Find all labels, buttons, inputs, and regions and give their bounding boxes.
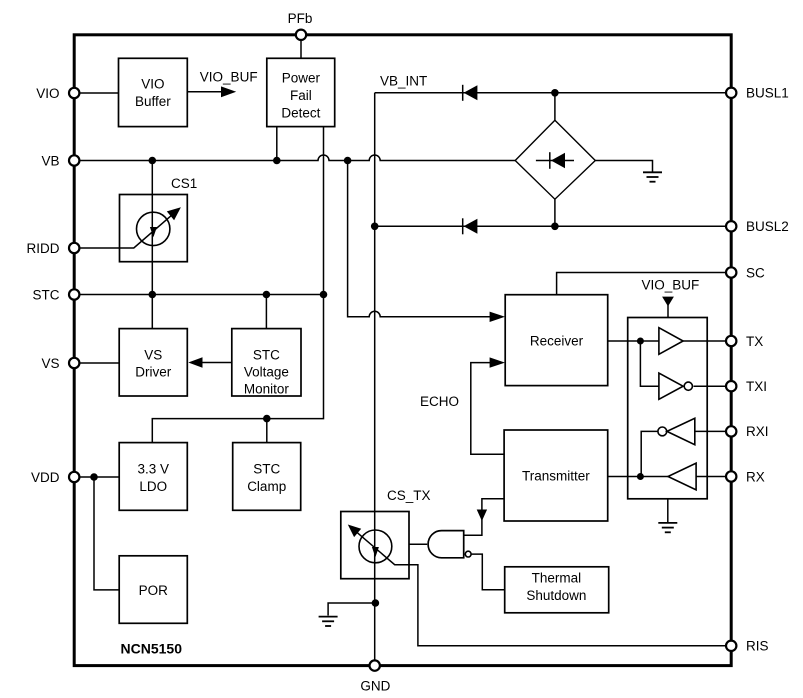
svg-text:VIO_BUF: VIO_BUF	[200, 70, 258, 85]
svg-text:Monitor: Monitor	[244, 382, 290, 397]
wire VDD pin to 3.3V LDO and POR	[76, 476, 119, 478]
svg-text:Power: Power	[282, 70, 321, 85]
box VIO Buffer	[119, 58, 188, 126]
svg-text:PFb: PFb	[288, 11, 313, 26]
pin RIS	[726, 641, 736, 651]
pin BUSL2	[726, 221, 736, 231]
wire STC down-branch to 3.3V LDO and STC Clamp	[152, 295, 323, 443]
ground G3	[319, 616, 338, 618]
svg-text:TX: TX	[746, 334, 763, 349]
svg-text:RXI: RXI	[746, 424, 769, 439]
wire VS pin to VS Driver	[76, 362, 119, 364]
wire Receiver output to IO buffer	[608, 340, 659, 342]
svg-text:3.3 V: 3.3 V	[138, 461, 170, 476]
box IO buffer block	[628, 318, 708, 499]
pin TX	[726, 336, 736, 346]
inverter U3 RXI triangle with bubble	[667, 418, 695, 444]
box STC Clamp	[233, 443, 301, 511]
wire RX pin to RX buffer input	[696, 476, 726, 478]
wire RIDD pin to CS1 diagonal	[76, 212, 175, 248]
box 3.3V LDO	[119, 443, 187, 511]
CS_TX diagonal wiper with arrow	[356, 531, 409, 564]
svg-text:RX: RX	[746, 469, 765, 484]
junction BUSL2 / bridge bottom	[551, 223, 559, 231]
ground G1 right of diamond	[595, 161, 652, 173]
buffer U4 RX triangle	[668, 463, 696, 490]
pin TXI	[726, 381, 736, 391]
pin VIO	[69, 88, 79, 98]
buffer U1 TX triangle	[659, 328, 683, 355]
NAND-style gate (mirrored AND with bubble)	[428, 531, 464, 558]
pin GND	[370, 660, 380, 670]
outer IC boundary box	[74, 35, 731, 666]
wire Power Fail Detect right stub down to STC line	[323, 127, 325, 295]
wire CS_TX sense to RIS pin	[409, 565, 726, 646]
box Power Fail Detect	[267, 58, 335, 126]
junction GND vertical / ground branch	[372, 599, 380, 607]
junction RX node	[637, 473, 644, 480]
svg-text:CS1: CS1	[171, 176, 197, 191]
inverter U2 TXI triangle with bubble	[659, 373, 683, 399]
pin VB	[69, 155, 79, 165]
wire PFb stub down to Power Fail Detect	[300, 38, 302, 58]
svg-text:TXI: TXI	[746, 379, 767, 394]
wire VIO_BUF arrow from VIO Buffer output	[187, 91, 222, 93]
wire NAND bubble to Thermal Shutdown	[471, 554, 505, 590]
pin RIDD	[69, 243, 79, 253]
svg-text:CS_TX: CS_TX	[387, 488, 431, 503]
svg-text:Fail: Fail	[290, 88, 312, 103]
svg-text:VIO: VIO	[36, 86, 59, 101]
box VS Driver	[119, 329, 187, 396]
wire STC net horizontal	[76, 294, 324, 296]
wire VIO_BUF arrow into IO buffer box	[667, 305, 669, 318]
junction STC branch / STC Clamp	[263, 415, 271, 423]
wire TXI inverter output to TXI pin	[694, 385, 727, 387]
svg-text:LDO: LDO	[139, 479, 167, 494]
svg-text:ECHO: ECHO	[420, 394, 459, 409]
junction BUSL2 / VB_INT vertical	[371, 223, 379, 231]
svg-text:RIDD: RIDD	[27, 241, 60, 256]
svg-text:VB: VB	[41, 153, 59, 168]
diode inside diamond	[536, 160, 574, 162]
junction VB / Receiver branch	[344, 157, 352, 165]
box STC Voltage Monitor	[232, 329, 301, 396]
svg-text:BUSL1: BUSL1	[746, 86, 789, 101]
wire Power Fail Detect left stub down to VB	[276, 127, 278, 161]
wire RXI inverter output to RX node	[641, 431, 658, 476]
box CS_TX current source	[341, 512, 409, 579]
diamond top stub	[554, 93, 556, 120]
wire VB net horizontal with hops at x=323.5 and x=374.7	[76, 155, 515, 160]
pin RXI	[726, 426, 736, 436]
wire ECHO feedback Transmitter to Receiver with arrow	[471, 363, 504, 455]
box CS1 current source	[120, 195, 188, 262]
junction VB / Power Fail Detect	[273, 157, 281, 165]
svg-text:Clamp: Clamp	[247, 479, 286, 494]
wire TX buffer output to TX pin	[683, 340, 726, 342]
junction Receiver out / TX-TXI node	[637, 338, 644, 345]
svg-text:Buffer: Buffer	[135, 94, 171, 109]
svg-text:VIO_BUF: VIO_BUF	[642, 278, 700, 293]
wire VB node to Receiver input with hop, arrow	[348, 161, 491, 317]
svg-text:POR: POR	[139, 583, 169, 598]
diamond bottom stub	[554, 199, 556, 226]
wire STC Voltage Monitor top stub	[265, 295, 267, 329]
pin SC	[726, 267, 736, 277]
wire NAND output to CS_TX	[409, 543, 427, 545]
wire VB junction down through CS1 to VS Driver	[151, 161, 153, 329]
CS_TX internal down arrow	[372, 547, 379, 557]
wire BUSL1 / VB_INT line with diode gap	[375, 92, 463, 94]
pin PFb	[296, 30, 306, 40]
svg-text:Thermal: Thermal	[532, 571, 582, 586]
diode D1 on BUSL1 line	[462, 85, 464, 101]
diode D2 on BUSL2 line	[462, 218, 464, 234]
svg-text:STC: STC	[253, 461, 280, 476]
svg-text:VDD: VDD	[31, 470, 60, 485]
pin RX	[726, 471, 736, 481]
svg-text:Driver: Driver	[135, 365, 172, 380]
CS_TX circle	[359, 530, 392, 563]
svg-text:GND: GND	[360, 679, 390, 694]
wire VIO pin to VIO Buffer	[76, 92, 119, 94]
junction STC / Voltage Monitor	[263, 291, 271, 299]
svg-text:RIS: RIS	[746, 639, 769, 654]
bridge diamond	[515, 120, 595, 199]
svg-text:Shutdown: Shutdown	[526, 588, 586, 603]
CS1 internal down arrow	[150, 227, 157, 237]
junction BUSL1 / bridge top	[551, 89, 559, 97]
wire SC from Receiver top	[557, 273, 726, 295]
junction VB / CS1 branch	[149, 157, 157, 165]
svg-text:Receiver: Receiver	[530, 334, 584, 349]
svg-text:VS: VS	[144, 347, 162, 362]
svg-text:SC: SC	[746, 265, 765, 280]
wire Transmitter to NAND top input with down arrow	[464, 499, 504, 536]
svg-text:STC: STC	[33, 287, 60, 302]
svg-text:VS: VS	[41, 356, 59, 371]
svg-text:Detect: Detect	[281, 106, 320, 121]
wire main vertical VB_INT to GND	[374, 93, 376, 663]
pin VS	[69, 358, 79, 368]
svg-text:VB_INT: VB_INT	[380, 74, 427, 89]
box Receiver	[505, 295, 608, 386]
wire STC Voltage Monitor to VS Driver with arrow	[201, 362, 232, 364]
wire BUSL2 line	[375, 225, 726, 227]
junction STC / CS1 vertical	[149, 291, 157, 299]
junction VDD / POR branch	[90, 473, 98, 481]
pin VDD	[69, 472, 79, 482]
svg-text:BUSL2: BUSL2	[746, 219, 789, 234]
wire RXI pin to RXI inverter input	[695, 430, 726, 432]
ground G2 below IO buffer box	[667, 499, 669, 523]
box Transmitter	[504, 430, 608, 521]
box Thermal Shutdown	[505, 567, 609, 613]
svg-text:STC: STC	[253, 347, 280, 362]
junction STC / Power Fail Detect branch	[320, 291, 328, 299]
pin BUSL1	[726, 88, 736, 98]
svg-text:Transmitter: Transmitter	[522, 469, 590, 484]
wire RX buffer output to Transmitter	[608, 476, 668, 478]
wire ground branch left of GND vertical	[328, 603, 375, 616]
pin STC	[69, 289, 79, 299]
svg-text:VIO: VIO	[141, 76, 164, 91]
wire node to TXI inverter input	[640, 341, 659, 386]
CS1 circle	[137, 212, 170, 245]
box POR	[119, 556, 187, 624]
svg-text:NCN5150: NCN5150	[121, 640, 183, 656]
svg-text:Voltage: Voltage	[244, 365, 289, 380]
